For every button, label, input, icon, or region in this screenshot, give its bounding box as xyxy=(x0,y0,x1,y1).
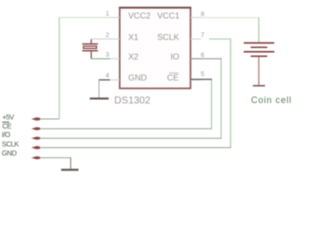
wire net I/O horizontal xyxy=(40,137,222,139)
svg-text:DS1302: DS1302 xyxy=(114,95,151,106)
svg-text:CE: CE xyxy=(2,121,12,130)
svg-text:+5V: +5V xyxy=(2,112,14,121)
svg-text:Coin cell: Coin cell xyxy=(251,95,292,105)
svg-text:SCLK: SCLK xyxy=(2,140,19,149)
wire GND pin 4 run xyxy=(99,79,111,81)
svg-text:6: 6 xyxy=(201,52,205,59)
svg-text:CE: CE xyxy=(167,72,179,82)
wire net GND vertical drop xyxy=(70,158,72,169)
wire net I/O pin 6 run xyxy=(191,58,222,60)
pin stub 7 xyxy=(191,38,202,40)
wire net CE horizontal xyxy=(40,128,212,130)
net arrow GND xyxy=(31,156,40,159)
svg-text:IO: IO xyxy=(170,52,179,62)
svg-text:I/O: I/O xyxy=(2,130,11,139)
pin stub 8 xyxy=(191,17,202,19)
pin stub 3 xyxy=(109,58,120,60)
svg-text:VCC2: VCC2 xyxy=(128,10,151,20)
battery G1 plate short bottom xyxy=(251,56,268,57)
battery G1 plate long bottom xyxy=(244,51,275,53)
net arrow I/O xyxy=(31,137,40,140)
ground symbol bottom left bar xyxy=(61,169,78,171)
pin stub 4 xyxy=(109,79,120,81)
wire X1 run crystal to pin 2 xyxy=(91,38,110,40)
pin name CE with overline xyxy=(167,72,179,82)
svg-text:4: 4 xyxy=(106,73,110,80)
net arrow CE xyxy=(31,127,40,130)
svg-text:3: 3 xyxy=(106,52,110,59)
battery G1 bottom terminal bar xyxy=(253,85,265,87)
svg-text:1: 1 xyxy=(106,11,110,18)
pin stub 2 xyxy=(109,38,120,40)
pin stub 1 xyxy=(109,17,120,19)
svg-text:X2: X2 xyxy=(128,52,139,62)
pin stub 6 xyxy=(191,58,202,60)
ground symbol at pin 4 stem xyxy=(98,80,100,98)
svg-text:SCLK: SCLK xyxy=(157,32,179,42)
svg-text:7: 7 xyxy=(201,32,205,39)
wire net SCLK pin 7 run xyxy=(209,38,231,40)
net arrow +5V xyxy=(31,117,40,120)
wire net SCLK vertical xyxy=(230,39,232,149)
crystal Q1 top plate xyxy=(82,43,98,44)
svg-text:GND: GND xyxy=(2,149,17,158)
svg-text:GND: GND xyxy=(128,72,147,82)
svg-text:5: 5 xyxy=(201,71,205,78)
wire net +5V vertical riser xyxy=(58,18,60,120)
crystal Q1 lead to X1 xyxy=(90,39,92,44)
wire net VCC1 to battery xyxy=(201,17,259,19)
svg-text:2: 2 xyxy=(106,32,110,39)
crystal Q1 bottom plate xyxy=(82,50,98,51)
net label CE with overline xyxy=(2,121,12,130)
svg-text:VCC1: VCC1 xyxy=(157,10,180,20)
battery G1 plate long top xyxy=(244,42,275,44)
battery G1 plate short xyxy=(251,47,268,48)
wire net +5V horizontal xyxy=(40,118,59,120)
net arrow SCLK xyxy=(31,146,40,149)
pin stub 5 xyxy=(191,79,202,81)
wire net CE vertical xyxy=(211,79,213,129)
wire battery top lead xyxy=(258,18,260,43)
svg-text:X1: X1 xyxy=(128,32,139,42)
IC U1 DS1302 box outline xyxy=(119,8,191,89)
crystal Q1 lead to X2 xyxy=(90,51,92,59)
crystal Q1 body xyxy=(83,46,96,48)
wire net I/O vertical xyxy=(220,58,222,139)
battery G1 bottom lead xyxy=(258,57,260,85)
wire net CE pin 5 run xyxy=(191,78,213,80)
wire net GND horizontal xyxy=(40,157,71,159)
wire net +5V top run to pin 1 xyxy=(59,17,110,19)
wire X2 run crystal to pin 3 xyxy=(91,58,110,60)
ground symbol at pin 4 bar xyxy=(90,98,109,100)
wire net SCLK horizontal xyxy=(40,147,231,149)
